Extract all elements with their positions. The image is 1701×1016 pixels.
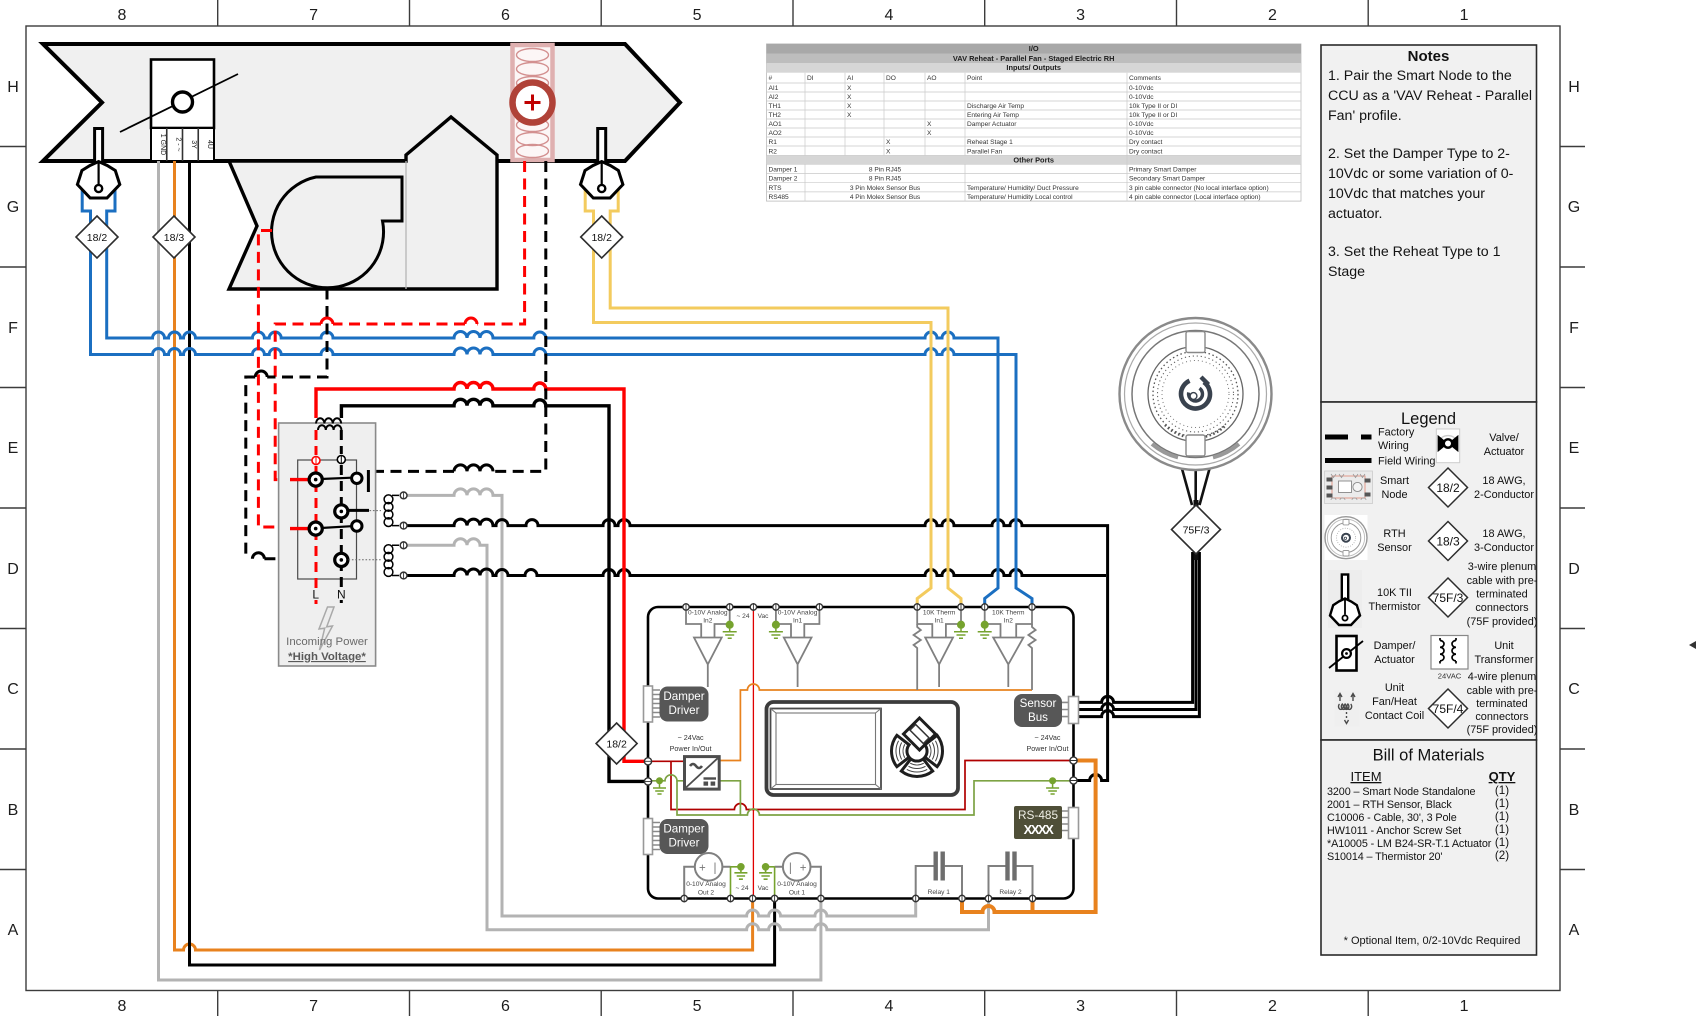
svg-text:Reheat Stage 1: Reheat Stage 1 [967,139,1013,146]
svg-text:4U: 4U [206,140,213,149]
svg-text:AO1: AO1 [769,121,783,128]
svg-text:RTS: RTS [769,185,783,192]
svg-text:Damper 2: Damper 2 [769,176,798,183]
svg-text:18 AWG,: 18 AWG, [1482,528,1525,540]
svg-text:XXXX: XXXX [1024,822,1055,837]
svg-text:(1): (1) [1495,797,1509,810]
svg-text:Notes: Notes [1408,48,1450,65]
svg-text:Valve/: Valve/ [1489,432,1519,444]
svg-text:4 Pin Molex Sensor Bus: 4 Pin Molex Sensor Bus [850,194,921,201]
svg-text:10K Therm: 10K Therm [923,610,956,617]
svg-text:X: X [847,112,852,119]
svg-text:1. Pair the Smart Node to the: 1. Pair the Smart Node to the [1328,68,1512,84]
svg-text:F: F [8,320,18,337]
svg-text:D: D [1568,561,1580,578]
svg-text:0-10V Analog: 0-10V Analog [777,881,817,888]
svg-text:75F/4: 75F/4 [1433,702,1464,716]
svg-text:(75F provided): (75F provided) [1467,616,1538,628]
svg-text:In2: In2 [703,618,712,625]
svg-text:10K TII: 10K TII [1377,587,1412,599]
svg-text:#: # [769,75,773,82]
svg-text:B: B [8,802,19,819]
svg-text:Field Wiring: Field Wiring [1378,456,1436,468]
svg-text:Damper: Damper [663,690,704,703]
svg-text:A: A [8,922,19,939]
svg-text:3 Pin Molex Sensor Bus: 3 Pin Molex Sensor Bus [850,185,921,192]
svg-text:* Optional Item, 0/2-10Vdc Req: * Optional Item, 0/2-10Vdc Required [1344,935,1521,947]
svg-text:Sensor: Sensor [1377,542,1412,554]
svg-text:E: E [8,440,19,457]
svg-text:Legend: Legend [1401,410,1456,428]
svg-text:0-10V Analog: 0-10V Analog [686,881,726,888]
svg-text:VAV Reheat - Parallel Fan - St: VAV Reheat - Parallel Fan - Staged Elect… [953,54,1115,63]
svg-text:Driver: Driver [669,837,700,850]
svg-text:G: G [1568,199,1580,216]
svg-text:Actuator: Actuator [1374,654,1415,666]
svg-text:75F/3: 75F/3 [1183,525,1210,537]
svg-text:(1): (1) [1495,836,1509,849]
svg-text:actuator.: actuator. [1328,206,1382,222]
svg-text:4-wire plenum: 4-wire plenum [1468,671,1536,683]
svg-text:E: E [1569,440,1580,457]
svg-text:0-10V Analog: 0-10V Analog [778,610,818,617]
svg-text:3-Conductor: 3-Conductor [1474,542,1534,554]
svg-text:terminated: terminated [1476,589,1527,601]
svg-text:D: D [7,561,19,578]
svg-text:~ 24Vac: ~ 24Vac [1034,733,1060,742]
svg-text:18/3: 18/3 [1436,535,1460,549]
svg-text:AI: AI [847,75,853,82]
svg-text:H: H [1568,79,1580,96]
svg-text:F: F [1569,320,1579,337]
svg-text:2: 2 [1268,998,1277,1015]
svg-text:cable with pre-: cable with pre- [1467,685,1538,697]
svg-text:X: X [847,94,852,101]
svg-text:24VAC: 24VAC [1438,672,1462,681]
svg-text:X: X [927,130,932,137]
svg-text:Wiring: Wiring [1378,440,1409,452]
svg-text:HW1011 - Anchor Screw Set: HW1011 - Anchor Screw Set [1327,825,1461,837]
svg-text:~ 24: ~ 24 [735,885,748,892]
svg-text:Actuator: Actuator [1484,446,1525,458]
svg-text:7: 7 [309,998,318,1015]
svg-text:TH2: TH2 [769,112,782,119]
svg-text:3Y: 3Y [190,140,197,149]
svg-text:C10006 - Cable, 30', 3 Pole: C10006 - Cable, 30', 3 Pole [1327,812,1457,824]
svg-text:X: X [886,149,891,156]
svg-text:18/3: 18/3 [164,232,185,244]
svg-text:6: 6 [501,7,510,24]
svg-text:0-10V Analog: 0-10V Analog [688,610,728,617]
svg-text:Point: Point [967,75,982,82]
svg-text:Unit: Unit [1385,682,1404,694]
svg-text:Factory: Factory [1378,427,1415,439]
svg-text:Transformer: Transformer [1475,654,1534,666]
svg-text:Damper Actuator: Damper Actuator [967,121,1017,128]
svg-text:X: X [927,121,932,128]
svg-text:3. Set the Reheat Type to 1: 3. Set the Reheat Type to 1 [1328,244,1501,260]
svg-text:Smart: Smart [1380,475,1409,487]
svg-text:(75F provided): (75F provided) [1467,724,1538,736]
svg-text:Incoming Power: Incoming Power [286,636,368,648]
svg-text:Driver: Driver [669,704,700,717]
svg-text:DI: DI [807,75,814,82]
svg-text:G: G [7,199,19,216]
svg-text:Bus: Bus [1028,711,1048,724]
svg-text:S10014 – Thermistor 20': S10014 – Thermistor 20' [1327,851,1442,863]
svg-text:Temperature/ Humidity/ Duct Pr: Temperature/ Humidity/ Duct Pressure [967,185,1079,192]
svg-text:10Vdc that matches your: 10Vdc that matches your [1328,186,1485,202]
svg-text:*High Voltage*: *High Voltage* [288,651,366,663]
svg-text:X: X [886,139,891,146]
svg-text:+: + [800,862,807,874]
svg-text:3: 3 [1076,7,1085,24]
svg-text:1: 1 [1460,998,1469,1015]
svg-text:In1: In1 [793,618,802,625]
svg-text:0-10Vdc: 0-10Vdc [1129,130,1154,137]
svg-text:Temperature/ Humidity Local co: Temperature/ Humidity Local control [967,194,1073,201]
svg-text:|: | [714,862,717,874]
svg-text:ITEM: ITEM [1350,769,1381,784]
svg-text:10K Therm: 10K Therm [992,610,1025,617]
svg-text:3: 3 [1076,998,1085,1015]
svg-text:Vac: Vac [758,885,770,892]
svg-text:AO2: AO2 [769,130,783,137]
svg-text:8 Pin RJ45: 8 Pin RJ45 [869,167,902,174]
svg-text:AO: AO [927,75,937,82]
svg-text:RTH: RTH [1383,528,1405,540]
svg-text:Thermistor: Thermistor [1368,601,1420,613]
svg-text:X: X [847,103,852,110]
svg-text:~ 24Vac: ~ 24Vac [678,733,704,742]
svg-text:QTY: QTY [1489,769,1516,784]
svg-text:Vac: Vac [758,613,770,620]
svg-text:Out 1: Out 1 [789,890,805,897]
svg-text:C: C [1568,681,1580,698]
svg-text:0-10Vdc: 0-10Vdc [1129,85,1154,92]
svg-text:Relay 2: Relay 2 [999,889,1022,896]
svg-text:L: L [312,588,319,602]
svg-text:3200 – Smart Node Standalone: 3200 – Smart Node Standalone [1327,786,1476,798]
svg-text:Fan' profile.: Fan' profile. [1328,108,1402,124]
svg-text:18/2: 18/2 [87,232,108,244]
svg-text:Entering Air Temp: Entering Air Temp [967,112,1019,119]
svg-text:Node: Node [1381,489,1407,501]
svg-text:TH1: TH1 [769,103,782,110]
svg-text:10Vdc or some variation of 0-: 10Vdc or some variation of 0- [1328,166,1514,182]
svg-text:8: 8 [117,998,126,1015]
svg-text:10k Type II or DI: 10k Type II or DI [1129,112,1177,119]
svg-text:1 GND: 1 GND [159,134,166,155]
svg-text:(1): (1) [1495,823,1509,836]
svg-text:Damper 1: Damper 1 [769,167,798,174]
svg-text:Bill of Materials: Bill of Materials [1373,747,1485,765]
svg-text:B: B [1569,802,1580,819]
svg-text:CCU as a 'VAV Reheat - Paralle: CCU as a 'VAV Reheat - Parallel [1328,88,1532,104]
svg-text:C: C [7,681,19,698]
svg-text:2001 – RTH Sensor, Black: 2001 – RTH Sensor, Black [1327,799,1452,811]
svg-text:~ 24: ~ 24 [736,613,749,620]
svg-text:terminated: terminated [1476,698,1527,710]
svg-text:Power In/Out: Power In/Out [1027,744,1069,753]
svg-text:(2): (2) [1495,849,1509,862]
svg-text:+: + [699,862,706,874]
svg-text:18/2: 18/2 [1436,481,1460,495]
svg-text:Sensor: Sensor [1020,697,1057,710]
svg-text:4: 4 [884,7,893,24]
svg-text:8: 8 [117,7,126,24]
svg-text:3-wire plenum: 3-wire plenum [1468,561,1536,573]
svg-text:Contact Coil: Contact Coil [1365,710,1424,722]
svg-text:4 pin cable connector (Local i: 4 pin cable connector (Local interface o… [1129,194,1261,201]
svg-text:0-10Vdc: 0-10Vdc [1129,94,1154,101]
svg-text:Out 2: Out 2 [698,890,714,897]
svg-text:Parallel Fan: Parallel Fan [967,149,1003,156]
svg-text:R1: R1 [769,139,778,146]
svg-text:2. Set the Damper Type to 2-: 2. Set the Damper Type to 2- [1328,146,1510,162]
svg-text:Dry contact: Dry contact [1129,139,1163,146]
svg-text:DO: DO [886,75,896,82]
svg-text:A: A [1569,922,1580,939]
svg-text:2-Conductor: 2-Conductor [1474,489,1534,501]
svg-text:Other Ports: Other Ports [1013,155,1054,164]
svg-text:7: 7 [309,7,318,24]
svg-text:4: 4 [884,998,893,1015]
svg-text:Dry contact: Dry contact [1129,149,1163,156]
svg-text:Fan/Heat: Fan/Heat [1372,696,1417,708]
svg-text:18 AWG,: 18 AWG, [1482,475,1525,487]
svg-text:Relay 1: Relay 1 [928,889,951,896]
svg-text:R2: R2 [769,149,778,156]
svg-text:Comments: Comments [1129,75,1162,82]
svg-text:Discharge Air Temp: Discharge Air Temp [967,103,1024,110]
svg-text:Primary Smart Damper: Primary Smart Damper [1129,167,1197,174]
svg-text:0-10Vdc: 0-10Vdc [1129,121,1154,128]
svg-text:Stage: Stage [1328,264,1365,280]
svg-text:cable with pre-: cable with pre- [1467,575,1538,587]
svg-text:8 Pin RJ45: 8 Pin RJ45 [869,176,902,183]
svg-text:6: 6 [501,998,510,1015]
svg-text:AI1: AI1 [769,85,779,92]
svg-text:connectors: connectors [1475,602,1529,614]
svg-text:RS485: RS485 [769,194,789,201]
svg-text:connectors: connectors [1475,711,1529,723]
svg-text:18/2: 18/2 [606,739,627,751]
svg-text:18/2: 18/2 [591,232,612,244]
svg-text:In2: In2 [1004,618,1013,625]
svg-text:5: 5 [693,998,702,1015]
svg-text:Damper: Damper [663,823,704,836]
svg-text:H: H [7,79,19,96]
svg-text:Inputs/ Outputs: Inputs/ Outputs [1006,63,1061,72]
svg-text:Damper/: Damper/ [1374,640,1417,652]
svg-text:2 - ~: 2 - ~ [175,137,182,151]
svg-text:Power In/Out: Power In/Out [670,744,712,753]
svg-text:I/O: I/O [1029,44,1039,53]
svg-text:(1): (1) [1495,810,1509,823]
svg-text:|: | [789,862,792,874]
svg-text:75F/3: 75F/3 [1433,591,1464,605]
svg-text:X: X [847,85,852,92]
svg-text:AI2: AI2 [769,94,779,101]
svg-text:*A10005 - LM B24-SR-T.1 Actuat: *A10005 - LM B24-SR-T.1 Actuator [1327,838,1492,850]
svg-text:1: 1 [1460,7,1469,24]
svg-text:(1): (1) [1495,784,1509,797]
svg-text:3 pin cable connector (No loca: 3 pin cable connector (No local interfac… [1129,185,1269,192]
svg-text:10k Type II or DI: 10k Type II or DI [1129,103,1177,110]
svg-text:2: 2 [1268,7,1277,24]
svg-text:In1: In1 [935,618,944,625]
svg-text:5: 5 [693,7,702,24]
svg-text:Unit: Unit [1494,640,1513,652]
svg-text:Secondary Smart Damper: Secondary Smart Damper [1129,176,1206,183]
svg-text:RS-485: RS-485 [1018,808,1058,822]
svg-text:N: N [337,588,346,602]
